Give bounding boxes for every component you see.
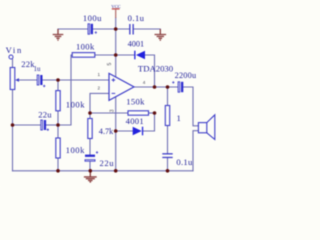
- op-amp plus sign: [112, 78, 116, 82]
- node 150k right junction: [153, 111, 157, 115]
- node plus input junction: [56, 78, 60, 82]
- wire C2 to op-amp plus input: [43, 79, 109, 81]
- resistor R6 1 ohm vertical: [165, 106, 169, 126]
- node A left junction: [11, 123, 15, 127]
- wire op-amp minus input down to feedback node: [90, 93, 109, 113]
- power port VCC: [111, 4, 120, 18]
- wire C5 to speaker top terminal: [183, 87, 198, 126]
- resistor R4 150k feedback: [128, 111, 149, 115]
- node rail junction R3: [56, 169, 60, 173]
- svg-text:1: 1: [177, 113, 181, 123]
- svg-text:VCC: VCC: [111, 4, 120, 9]
- svg-text:Vin: Vin: [6, 45, 23, 55]
- wire node A left to C3: [13, 124, 41, 126]
- wire potentiometer bottom to ground rail corner: [12, 90, 14, 171]
- capacitor C5 2200u plates: [172, 81, 183, 92]
- svg-text:100k: 100k: [66, 99, 85, 109]
- capacitor C2 1u plates: [37, 75, 45, 87]
- node feedback junction: [88, 111, 92, 115]
- potentiometer RP 22k body: [10, 68, 15, 90]
- wire R5 top lead: [89, 113, 91, 119]
- capacitor C7 0.1u bottom plates: [162, 153, 172, 158]
- svg-text:4001: 4001: [128, 40, 145, 49]
- wire VCC vertical to op-amp pin5: [115, 18, 117, 77]
- wire C3 to node A dot: [46, 124, 58, 126]
- svg-text:150k: 150k: [126, 96, 145, 106]
- wire R3 leads: [57, 125, 59, 171]
- node rail junction C6: [89, 169, 93, 173]
- svg-text:5: 5: [107, 63, 113, 66]
- diode D2 4001 pointing right: [133, 127, 144, 136]
- capacitor C3 22u node A plates: [41, 120, 49, 131]
- node pin3 diode junction: [114, 129, 118, 133]
- wire top rail left segment: [58, 28, 88, 30]
- svg-text:0.1u: 0.1u: [128, 13, 145, 23]
- wire R2 top lead: [57, 80, 59, 91]
- wire diode D2 anode lead: [116, 130, 133, 132]
- wire feedback node to R4: [90, 112, 128, 114]
- op-amp U1 TDA2030 triangle: [109, 73, 134, 100]
- wire top rail middle segment: [93, 28, 129, 30]
- wire diode D1 anode lead: [116, 54, 135, 56]
- wire wiper to C2: [18, 79, 37, 81]
- wire R4 right lead: [149, 112, 155, 114]
- svg-text:1u: 1u: [34, 66, 41, 73]
- svg-text:TDA2030: TDA2030: [138, 64, 174, 74]
- node rail junction C7: [166, 169, 170, 173]
- svg-text:100k: 100k: [76, 41, 95, 51]
- ground top right: [155, 29, 167, 40]
- wire resistor R1 left lead down to node A: [58, 55, 73, 125]
- wire resistor R1 right lead: [94, 54, 116, 56]
- wire C6 to ground rail: [89, 161, 91, 171]
- node output junction 1: [153, 85, 157, 89]
- svg-text:1: 1: [98, 72, 101, 77]
- svg-text:4.7k: 4.7k: [99, 127, 114, 136]
- svg-text:0.1u: 0.1u: [176, 157, 193, 167]
- potentiometer RP wiper arrow: [15, 78, 19, 82]
- wire diode D1 cathode lead to output node: [145, 55, 154, 87]
- svg-text:2: 2: [98, 86, 101, 91]
- wire bottom ground rail: [13, 170, 194, 172]
- wire potentiometer top terminal: [12, 59, 14, 68]
- node rail junction pin3: [114, 169, 118, 173]
- node VCC rail junction: [114, 27, 118, 31]
- wire op-amp output to C5: [134, 86, 178, 88]
- capacitor C4 0.1u top plates: [129, 24, 134, 35]
- wire op-amp pin3 down to ground rail: [115, 97, 117, 171]
- capacitor C1 100u plates: [88, 24, 97, 34]
- svg-text:2200u: 2200u: [175, 71, 197, 80]
- resistor R1 100k top horizontal: [72, 53, 95, 58]
- node diode D1 / pin5 junction: [114, 53, 118, 57]
- svg-text:22u: 22u: [100, 158, 115, 168]
- wire top rail right segment: [134, 28, 161, 30]
- svg-text:100k: 100k: [66, 145, 86, 155]
- svg-text:3: 3: [109, 109, 115, 112]
- svg-text:100u: 100u: [83, 13, 102, 23]
- node output junction 2: [166, 85, 170, 89]
- op-amp minus sign: [112, 92, 116, 94]
- terminal circle Vin: [9, 55, 13, 59]
- node A junction: [56, 123, 60, 127]
- ground bottom center: [84, 171, 97, 182]
- svg-text:4: 4: [143, 80, 146, 85]
- wire speaker bottom terminal to ground rail: [193, 131, 198, 171]
- svg-text:4001: 4001: [126, 116, 144, 126]
- speaker LS: [198, 115, 214, 140]
- wire C7 to ground rail: [167, 158, 169, 171]
- wire R6 top lead: [167, 87, 169, 106]
- resistor R5 4.7k vertical: [88, 119, 92, 139]
- wire R6 bottom lead to C7: [167, 126, 169, 154]
- ground top left: [53, 29, 64, 40]
- wire diode D2 cathode lead up to output node: [143, 113, 155, 131]
- svg-text:22u: 22u: [38, 109, 52, 119]
- wire R2 bottom lead: [57, 111, 59, 125]
- resistor R2 100k vertical bias upper: [56, 91, 60, 111]
- capacitor C6 22u bottom plates: [85, 151, 98, 161]
- resistor R3 100k vertical bias lower: [56, 138, 60, 158]
- diode D1 4001 pointing left: [134, 51, 145, 60]
- wire R5 bottom lead to C6: [89, 139, 91, 155]
